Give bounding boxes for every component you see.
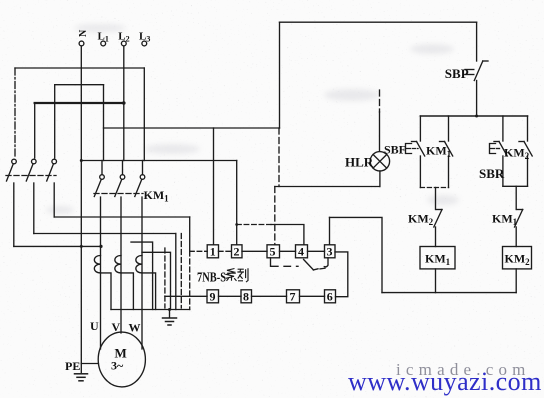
svg-text:7: 7	[290, 290, 296, 304]
svg-text:6: 6	[327, 290, 333, 304]
svg-text:2: 2	[234, 245, 240, 259]
svg-text:4: 4	[298, 245, 304, 259]
svg-text:SBR: SBR	[479, 166, 505, 181]
svg-text:SBF: SBF	[384, 143, 406, 157]
svg-text:W: W	[129, 321, 141, 335]
svg-text:www.wuyazi.com: www.wuyazi.com	[348, 367, 542, 396]
svg-text:U: U	[90, 319, 99, 333]
svg-text:3~: 3~	[111, 359, 124, 373]
svg-text:5: 5	[270, 245, 276, 259]
svg-text:7NB-S: 7NB-S	[197, 270, 226, 285]
svg-text:PE: PE	[65, 359, 80, 373]
svg-text:9: 9	[210, 290, 216, 304]
svg-text:V: V	[112, 320, 121, 334]
svg-text:8: 8	[243, 290, 249, 304]
svg-text:SBP: SBP	[445, 66, 469, 81]
svg-text:N: N	[78, 29, 89, 37]
svg-text:HLR: HLR	[345, 155, 374, 170]
svg-text:1: 1	[210, 245, 216, 259]
svg-text:3: 3	[327, 245, 333, 259]
